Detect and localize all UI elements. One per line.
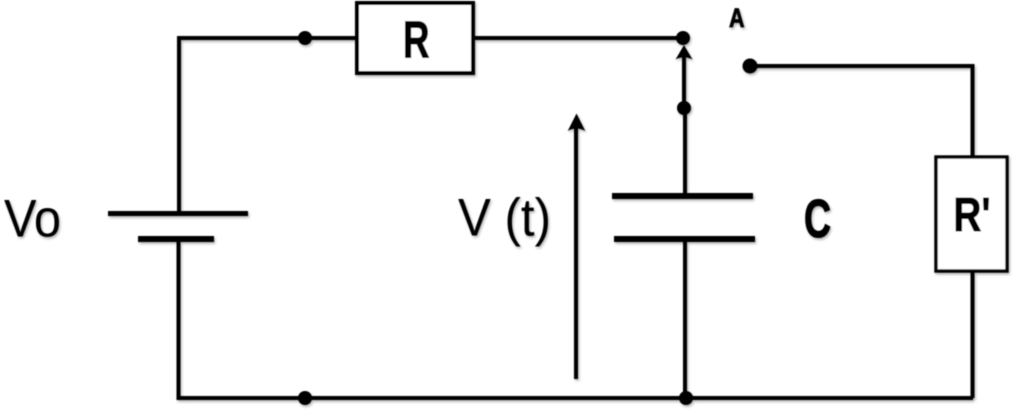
svg-text:C: C <box>804 189 831 249</box>
svg-text:V (t): V (t) <box>458 189 551 248</box>
svg-text:A: A <box>729 3 745 33</box>
svg-text:R': R' <box>954 189 991 242</box>
svg-text:R: R <box>403 12 430 70</box>
svg-text:Vo: Vo <box>4 190 61 249</box>
